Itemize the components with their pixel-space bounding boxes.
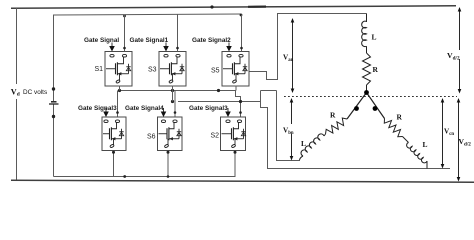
svg-text:S1: S1 bbox=[94, 66, 103, 73]
svg-text:Gate Signal4: Gate Signal4 bbox=[125, 105, 164, 112]
svg-text:L: L bbox=[423, 140, 428, 149]
svg-text:Gate Signal3: Gate Signal3 bbox=[78, 105, 117, 112]
svg-text:Gate Signal: Gate Signal bbox=[84, 37, 119, 44]
svg-text:Gate Signal3: Gate Signal3 bbox=[189, 105, 228, 112]
svg-text:Gate Signal1: Gate Signal1 bbox=[130, 37, 169, 44]
svg-text:S6: S6 bbox=[147, 134, 156, 141]
svg-text:Gate Signal2: Gate Signal2 bbox=[192, 37, 231, 44]
svg-text:S5: S5 bbox=[211, 68, 220, 75]
svg-text:R: R bbox=[373, 65, 379, 74]
svg-text:S3: S3 bbox=[148, 67, 157, 74]
svg-text:DC volts: DC volts bbox=[23, 89, 47, 96]
svg-text:S2: S2 bbox=[210, 133, 219, 140]
svg-text:R: R bbox=[397, 113, 403, 122]
svg-text:R: R bbox=[330, 111, 336, 120]
svg-text:L: L bbox=[301, 139, 306, 148]
svg-text:L: L bbox=[372, 33, 377, 42]
